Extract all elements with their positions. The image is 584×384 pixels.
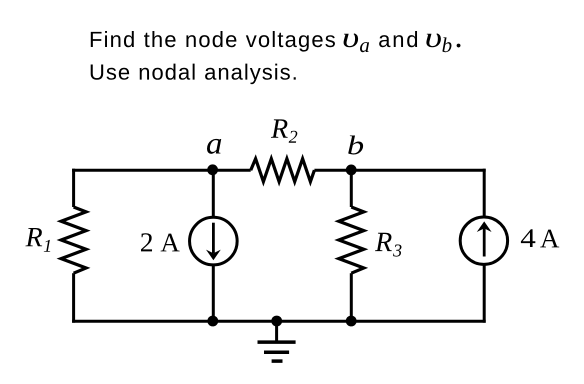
title period: [457, 44, 461, 48]
4A source arrow (up): [483, 228, 486, 256]
title line 2 text: [91, 64, 296, 85]
resistor R2 label: [271, 119, 297, 142]
current source 4A circle: [460, 217, 507, 264]
2A source arrow (down): [212, 223, 215, 254]
junction dot bottom left: [207, 316, 218, 327]
junction dot bottom right: [346, 316, 357, 327]
wire bottom: [72, 320, 486, 323]
wire left lower: [72, 273, 75, 323]
node b label: [348, 135, 363, 154]
wire left upper: [72, 169, 75, 207]
junction dot ground node: [271, 316, 282, 327]
node a label: [207, 139, 221, 154]
wire top-right segment (R2 to right corner): [314, 169, 485, 172]
title v_b symbol: [426, 33, 440, 47]
wire R3 branch upper: [350, 170, 353, 207]
title v_a subscript: [360, 42, 369, 52]
resistor R1 label: [25, 228, 50, 252]
title line 1 text: [91, 31, 335, 52]
wire top-left segment (node a to left corner): [72, 169, 251, 172]
wire right lower: [483, 264, 486, 323]
node b junction dot: [346, 165, 357, 176]
node a junction dot: [207, 164, 218, 175]
wire right upper: [483, 169, 486, 218]
resistor R3: [339, 207, 364, 273]
title 'and': [379, 31, 417, 47]
wire R3 branch lower: [350, 273, 353, 321]
wire middle branch upper: [212, 170, 215, 218]
current source 2A circle: [190, 217, 238, 265]
resistor R3 label: [375, 233, 402, 257]
2 A value label: [141, 233, 180, 251]
title v_b subscript: [442, 37, 451, 52]
ground: [275, 321, 278, 342]
resistor R1: [61, 207, 86, 273]
4 A value label: [521, 229, 559, 247]
title v_a symbol: [344, 33, 358, 47]
wire middle branch lower: [212, 264, 215, 321]
resistor R2: [251, 159, 315, 182]
